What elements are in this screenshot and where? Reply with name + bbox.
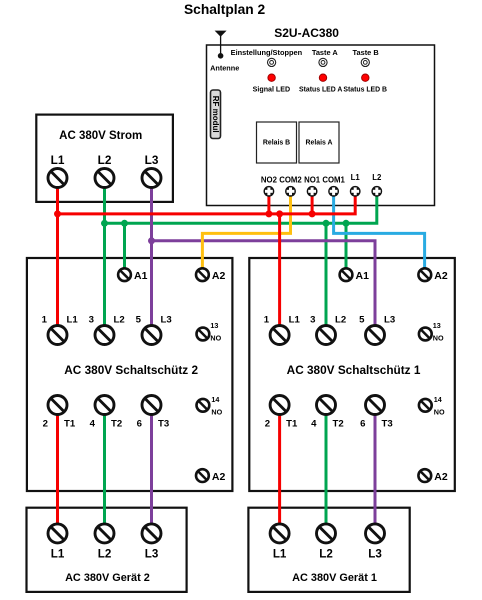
pin label L3 [145,548,159,561]
wire red stub NO2 [267,191,270,214]
svg-text:NO1: NO1 [304,176,321,185]
terminal NO1 [307,186,318,197]
label A1 [356,270,370,282]
pin label NO1 [304,176,321,185]
contactor box AC 380V Schaltschuetz 2 [27,258,233,491]
screw terminal A2b K2 [196,469,209,482]
labels 13 NO [210,321,221,343]
svg-text:L1: L1 [51,153,65,167]
wire purple bus to contactor1 5/L3 [152,241,376,335]
screw terminal 1/L1 K2 [48,326,67,345]
svg-text:L1: L1 [273,548,287,561]
svg-text:L3: L3 [145,153,159,167]
wire green contactor1 4/T2 to Geraet1 L2 [325,405,328,533]
screw terminal 3/L2 K2 [95,326,114,345]
button Taste B [353,48,379,67]
pin labels 2 T1 [43,418,76,429]
screw terminal 4/T2 K2 [95,396,114,415]
svg-text:Taste A: Taste A [312,48,339,57]
wire green drop to contactor2 A1 [123,223,126,270]
svg-text:Relais A: Relais A [306,140,333,147]
svg-text:L3: L3 [145,548,159,561]
contactor box AC 380V Schaltschuetz 1 [249,258,454,491]
box AC 380V Strom [36,115,173,202]
pin label L3 [368,548,382,561]
labels 13 NO [433,321,444,343]
junction dot purple bus [148,237,155,244]
terminal COM1 [328,186,339,197]
screw terminal 4/T2 K1 [317,396,336,415]
wire green contactor2 4/T2 to Geraet2 L2 [103,405,106,533]
pin labels 1 L1 [264,315,301,326]
pin labels 1 L1 [42,315,79,326]
screw terminal L2 G2 [95,524,114,543]
svg-text:Status LED A: Status LED A [299,87,342,94]
svg-text:COM1: COM1 [322,176,345,185]
screw terminal 13/NO K1 [419,328,432,341]
screw terminal A2b K1 [418,469,431,482]
svg-text:Signal LED: Signal LED [253,86,290,94]
screw terminal A1 K1 [340,268,353,281]
svg-text:NO: NO [211,408,222,417]
svg-text:Status LED B: Status LED B [343,87,387,94]
pin label L2 [372,173,382,182]
screw terminal L3 G1 [366,524,385,543]
labels 14 NO [434,395,445,417]
pin label L2 [98,548,112,561]
svg-text:L2: L2 [98,548,112,561]
terminal NO2 [264,186,275,197]
label S2U-AC380 [274,26,339,40]
button Einstellung/Stoppen [231,48,303,67]
load box AC 380V Geraet 2 [27,508,187,592]
wire purple contactor2 6/T3 to Geraet2 L3 [150,405,153,533]
svg-text:5: 5 [359,315,365,326]
wire green drop to contactor1 A1 [345,223,348,270]
svg-text:L2: L2 [319,548,333,561]
svg-text:A2: A2 [434,270,448,282]
pin labels 4 T2 [90,418,123,429]
load box AC 380V Geraet 1 [248,508,409,592]
svg-text:2: 2 [265,418,270,429]
screw terminal L1 G1 [270,524,289,543]
pin label L1 [273,548,287,561]
svg-text:4: 4 [311,418,317,429]
svg-text:NO: NO [210,334,221,343]
pin labels 6 T3 [360,418,393,429]
label A2 [434,471,448,483]
screw terminal L2 G1 [317,524,336,543]
wire green bus to S2U L2 [105,191,377,223]
svg-text:T2: T2 [333,418,344,429]
pin labels 3 L2 [310,315,346,326]
screw terminal L1 G2 [48,524,67,543]
labels 14 NO [211,395,222,417]
svg-text:L3: L3 [161,315,172,326]
svg-text:14: 14 [211,395,219,404]
pin labels 3 L2 [89,315,125,326]
wire green Strom L2 down to contactor2 3/L2 [103,186,106,335]
wire red stub NO1 [311,191,314,214]
wire red contactor2 2/T1 to Geraet2 L1 [56,405,59,533]
svg-text:RF modul: RF modul [211,96,220,133]
wire purple contactor1 6/T3 to Geraet1 L3 [374,405,377,533]
screw terminal 14/NO K1 [419,399,432,412]
svg-text:A2: A2 [434,471,448,483]
screw terminal 5/L3 K2 [142,326,161,345]
svg-text:AC 380V Schaltschütz 2: AC 380V Schaltschütz 2 [64,363,198,377]
svg-text:T3: T3 [382,418,393,429]
RF modul [211,90,221,139]
screw terminal 2/T1 K2 [48,396,67,415]
svg-text:T1: T1 [64,418,76,429]
svg-text:T1: T1 [286,418,298,429]
svg-text:AC 380V Schaltschütz 1: AC 380V Schaltschütz 1 [287,363,421,377]
screw terminal L3 G2 [142,524,161,543]
svg-text:AC 380V Strom: AC 380V Strom [59,130,142,142]
screw terminal 5/L3 K1 [366,326,385,345]
svg-text:3: 3 [310,315,315,326]
pin labels 5 L3 [136,315,172,326]
svg-text:L1: L1 [351,173,361,182]
screw terminal L2 Strom [95,169,114,188]
relay Relais A [299,122,339,163]
pin label L1 [351,173,361,182]
wire red Strom L1 down to contactor2 1/L1 [56,186,59,335]
svg-text:NO: NO [434,408,445,417]
svg-text:3: 3 [89,315,94,326]
wire red bus to S2U L1 [58,191,356,214]
pin label L1 [51,548,65,561]
terminal L1 [350,186,361,197]
svg-text:L1: L1 [289,315,301,326]
pin label L2 [319,548,333,561]
svg-text:L2: L2 [372,173,382,182]
wire green drop to contactor1 3/L2 [325,223,328,335]
screw terminal 1/L1 K1 [270,326,289,345]
svg-text:A1: A1 [356,270,370,282]
svg-text:Einstellung/Stoppen: Einstellung/Stoppen [231,48,303,57]
svg-text:S2U-AC380: S2U-AC380 [274,26,339,40]
pin label COM1 [322,176,345,185]
svg-text:A1: A1 [134,270,148,282]
svg-text:5: 5 [136,315,142,326]
svg-text:NO: NO [433,334,444,343]
LED Status B [343,74,387,94]
wire yellow COM2 to contactor2 A2 [202,191,290,270]
pin labels 5 L3 [359,315,395,326]
svg-text:L2: L2 [335,315,346,326]
pin labels 4 T2 [311,418,344,429]
screw terminal 3/L2 K1 [317,326,336,345]
svg-text:T2: T2 [111,418,122,429]
svg-text:1: 1 [42,315,48,326]
pin labels 6 T3 [137,418,170,429]
junction dots green bus [101,220,350,227]
LED Signal [253,74,290,94]
wire purple Strom L3 down to contactor2 5/L3 [150,186,153,335]
antenna [215,31,227,59]
screw terminal 13/NO K2 [197,328,210,341]
svg-text:1: 1 [264,315,270,326]
svg-text:13: 13 [433,321,441,330]
label A2 [434,270,448,282]
label Antenne [210,64,239,73]
svg-text:13: 13 [210,321,218,330]
receiver box S2U-AC380 [207,45,435,206]
svg-text:6: 6 [360,418,365,429]
svg-text:Antenne: Antenne [210,64,239,73]
svg-text:AC 380V Gerät 2: AC 380V Gerät 2 [65,572,150,584]
terminal L2 [371,186,382,197]
svg-text:Taste B: Taste B [353,48,379,57]
svg-text:Schaltplan 2: Schaltplan 2 [184,2,266,17]
screw terminal 14/NO K2 [197,399,210,412]
button Taste A [312,48,339,67]
svg-text:L2: L2 [98,153,112,167]
label A1 [134,270,148,282]
svg-text:6: 6 [137,418,142,429]
pin label COM2 [279,176,302,185]
screw terminal A2 K2 [196,268,209,281]
screw terminal 6/T3 K2 [142,396,161,415]
junction dots red bus [54,210,316,217]
wire red contactor1 2/T1 to Geraet1 L1 [278,405,281,533]
svg-text:Relais B: Relais B [263,140,290,147]
svg-text:T3: T3 [158,418,169,429]
wire red drop to contactor1 1/L1 [278,214,281,335]
wire blue COM1 to contactor1 A2 [334,191,425,270]
screw terminal A2 K1 [418,268,431,281]
title Schaltplan 2 [184,2,266,17]
svg-text:NO2: NO2 [261,176,278,185]
svg-text:AC 380V Gerät 1: AC 380V Gerät 1 [292,572,377,584]
svg-text:14: 14 [434,395,442,404]
svg-text:COM2: COM2 [279,176,302,185]
svg-text:4: 4 [90,418,96,429]
svg-text:A2: A2 [212,270,226,282]
pin labels 2 T1 [265,418,298,429]
svg-text:L1: L1 [67,315,79,326]
screw terminal A1 K2 [118,268,131,281]
pin label NO2 [261,176,278,185]
screw terminal L3 Strom [142,169,161,188]
svg-text:A2: A2 [212,471,226,483]
relay Relais B [257,122,297,163]
label A2 [212,471,226,483]
LED Status A [299,74,342,94]
screw terminal L1 Strom [48,169,67,188]
svg-text:L3: L3 [368,548,382,561]
terminal COM2 [285,186,296,197]
label A2 [212,270,226,282]
svg-text:L1: L1 [51,548,65,561]
screw terminal 2/T1 K1 [270,396,289,415]
svg-text:L3: L3 [384,315,395,326]
svg-text:2: 2 [43,418,48,429]
svg-text:L2: L2 [114,315,125,326]
screw terminal 6/T3 K1 [366,396,385,415]
